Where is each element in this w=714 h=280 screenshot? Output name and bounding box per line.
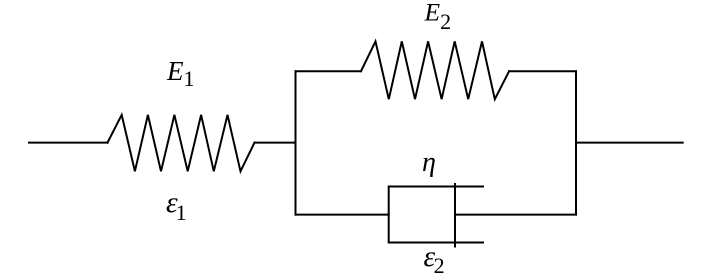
wire left terminal (29, 142, 108, 144)
wire right terminal (576, 142, 683, 144)
dashpot eta piston (454, 184, 456, 247)
svg-text:ε2: ε2 (424, 241, 445, 278)
dashpot eta cylinder (389, 187, 483, 243)
svg-text:E2: E2 (424, 0, 452, 34)
wire top branch to spring E2 (296, 70, 362, 72)
svg-text:η: η (422, 147, 436, 178)
wire E2 to right bar (509, 70, 576, 72)
wire E1 to left bar (255, 142, 296, 144)
wire bottom branch to dashpot (296, 214, 389, 216)
spring E2 (361, 41, 509, 99)
wire right vertical bar of parallel block (575, 71, 577, 214)
wire left vertical bar of parallel block (295, 71, 297, 214)
svg-text:ε1: ε1 (166, 187, 187, 225)
svg-text:E1: E1 (166, 56, 195, 91)
spring E1 (108, 115, 255, 171)
wire dashpot rod to right bar (455, 214, 576, 216)
